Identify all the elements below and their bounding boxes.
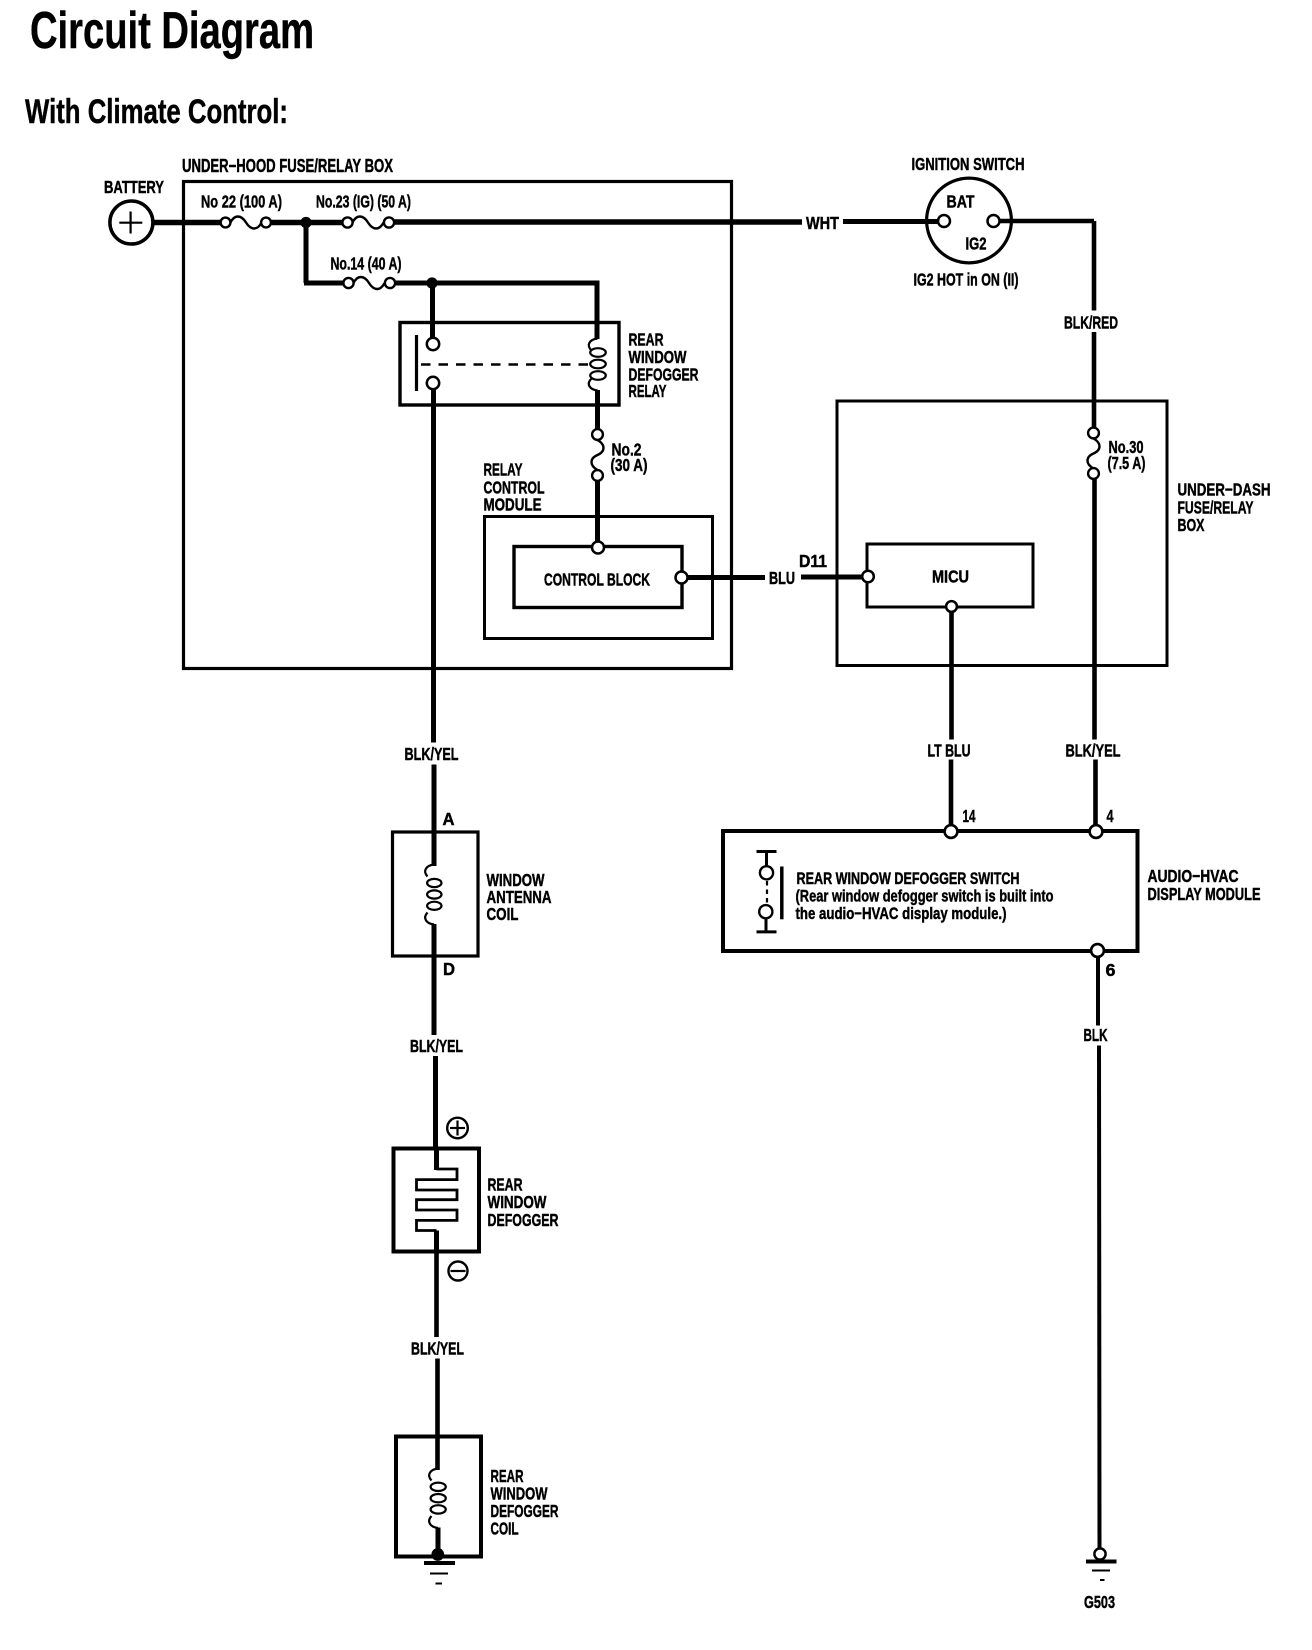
wire No.14 run down to relay coil xyxy=(595,283,600,339)
svg-text:BLK/YEL: BLK/YEL xyxy=(405,744,459,764)
svg-text:WINDOW: WINDOW xyxy=(488,1192,547,1212)
wire BLK/YEL label down to defogger coil xyxy=(435,1359,440,1471)
wire WHT label to ignition switch BAT terminal xyxy=(843,219,939,224)
svg-text:IG2: IG2 xyxy=(966,234,987,254)
wire fuse No.2 to control block xyxy=(595,481,600,543)
svg-text:IGNITION SWITCH: IGNITION SWITCH xyxy=(912,154,1025,174)
wire fuse No.14 to relay coil drop xyxy=(395,281,600,286)
wire fuse No.30 down to BLK/YEL label xyxy=(1092,479,1097,740)
rear window defogger coil L2 xyxy=(396,1437,559,1557)
svg-text:BATTERY: BATTERY xyxy=(104,177,164,197)
svg-text:UNDER−HOOD FUSE/RELAY BOX: UNDER−HOOD FUSE/RELAY BOX xyxy=(182,156,393,176)
switch note text xyxy=(796,869,1054,923)
pin 14 xyxy=(945,825,958,838)
wire control block to BLU label xyxy=(688,575,766,580)
svg-text:BLK/YEL: BLK/YEL xyxy=(410,1036,463,1056)
rear window defogger switch symbol xyxy=(757,852,782,932)
fuse No.22 (100 A) xyxy=(201,192,282,229)
fuse No.23 (IG) (50 A) xyxy=(316,192,411,229)
svg-text:WHT: WHT xyxy=(806,213,839,233)
svg-text:(30 A): (30 A) xyxy=(611,455,648,475)
svg-text:RELAY: RELAY xyxy=(484,460,523,480)
wire LT BLU label to pin 14 xyxy=(949,760,954,827)
svg-text:COIL: COIL xyxy=(487,904,519,924)
title xyxy=(25,2,314,131)
svg-text:MICU: MICU xyxy=(932,567,969,587)
plus terminal symbol xyxy=(447,1118,468,1139)
svg-text:BLK/YEL: BLK/YEL xyxy=(1066,741,1121,761)
svg-text:CONTROL BLOCK: CONTROL BLOCK xyxy=(544,570,650,590)
svg-text:AUDIO−HVAC: AUDIO−HVAC xyxy=(1148,866,1239,886)
svg-text:6: 6 xyxy=(1106,960,1116,980)
ground at defogger coil xyxy=(424,1548,455,1583)
wire BLK label down to ground G503 xyxy=(1097,1046,1102,1549)
svg-text:No.14 (40 A): No.14 (40 A) xyxy=(331,254,402,274)
window antenna coil L1 xyxy=(393,832,552,956)
svg-text:BLK/YEL: BLK/YEL xyxy=(411,1339,464,1359)
svg-text:4: 4 xyxy=(1107,806,1114,826)
relay control module box xyxy=(484,460,713,639)
minus terminal symbol xyxy=(449,1262,468,1281)
wire fuse No.23 to WHT label xyxy=(394,219,802,225)
audio-hvac display module box xyxy=(723,831,1261,951)
svg-text:BLU: BLU xyxy=(769,568,795,588)
wire junction down to relay contact xyxy=(430,283,435,339)
svg-text:A: A xyxy=(443,809,455,829)
svg-text:(Rear window defogger switch i: (Rear window defogger switch is built in… xyxy=(796,887,1054,906)
svg-text:REAR WINDOW DEFOGGER SWITCH: REAR WINDOW DEFOGGER SWITCH xyxy=(797,869,1020,888)
fuse No.30 (7.5 A) xyxy=(1088,428,1146,479)
svg-text:D11: D11 xyxy=(799,551,827,571)
MICU xyxy=(862,544,1033,612)
svg-text:BAT: BAT xyxy=(947,192,975,212)
ground G503 xyxy=(1084,1548,1117,1612)
pin 4 xyxy=(1090,825,1103,838)
under-hood fuse/relay box xyxy=(182,156,732,669)
wire battery to fuse No.22 xyxy=(153,220,222,226)
svg-text:IG2 HOT in ON (II): IG2 HOT in ON (II) xyxy=(914,270,1019,290)
wire BLK/YEL label to antenna coil terminal A xyxy=(432,765,437,867)
wire relay contact down to BLK/YEL label xyxy=(431,389,436,743)
wire BLK/RED label to fuse No.30 xyxy=(1092,332,1097,428)
svg-text:14: 14 xyxy=(963,806,976,826)
svg-text:With Climate Control:: With Climate Control: xyxy=(25,93,288,131)
svg-text:No 22 (100 A): No 22 (100 A) xyxy=(201,192,282,212)
wire branch down to No.14 xyxy=(304,223,309,284)
svg-text:BLK: BLK xyxy=(1084,1025,1108,1045)
wire corner down to BLK/RED label xyxy=(1092,221,1097,311)
control block U1 xyxy=(514,542,688,608)
svg-text:COIL: COIL xyxy=(491,1519,519,1539)
relay REAR WINDOW DEFOGGER RELAY xyxy=(400,323,699,406)
wire MICU down to LT BLU label xyxy=(949,612,954,740)
wire relay coil to fuse No.2 xyxy=(595,390,600,430)
junction node above relay contact xyxy=(426,277,437,288)
wire fuse No.22 to fuse No.23 xyxy=(271,220,343,226)
rear window defogger R1 xyxy=(394,1149,559,1252)
wire ignition IG2 terminal to corner xyxy=(1000,219,1095,224)
svg-text:UNDER−DASH: UNDER−DASH xyxy=(1178,480,1271,500)
fuse No.2 (30 A) xyxy=(592,429,648,481)
svg-text:BOX: BOX xyxy=(1178,515,1205,535)
svg-text:RELAY: RELAY xyxy=(629,381,667,401)
pin 6 xyxy=(1091,944,1104,957)
ignition switch xyxy=(912,154,1025,290)
svg-text:DISPLAY MODULE: DISPLAY MODULE xyxy=(1148,884,1261,904)
under-dash fuse/relay box xyxy=(837,401,1271,666)
svg-text:No.23 (IG) (50 A): No.23 (IG) (50 A) xyxy=(316,192,411,212)
svg-text:D: D xyxy=(443,959,455,979)
svg-text:G503: G503 xyxy=(1084,1592,1115,1612)
svg-text:(7.5 A): (7.5 A) xyxy=(1108,453,1146,473)
wire BLU label to MICU xyxy=(801,575,864,580)
wire BLK/YEL label down to defogger xyxy=(433,1056,438,1149)
wire pin 6 down to BLK label xyxy=(1096,957,1100,1026)
wire defogger down to BLK/YEL label xyxy=(434,1252,439,1338)
fuse No.14 (40 A) xyxy=(331,254,402,290)
battery xyxy=(104,177,164,244)
svg-text:DEFOGGER: DEFOGGER xyxy=(488,1210,559,1230)
svg-text:the audio−HVAC display module.: the audio−HVAC display module.) xyxy=(796,904,1007,923)
junction node at No.14 branch xyxy=(300,217,311,228)
svg-text:BLK/RED: BLK/RED xyxy=(1064,313,1118,333)
wire BLK/YEL label to pin 4 xyxy=(1093,760,1098,827)
wire coil to terminal D and down to BLK/YEL label xyxy=(432,924,437,1035)
svg-text:LT BLU: LT BLU xyxy=(928,741,971,761)
svg-text:Circuit Diagram: Circuit Diagram xyxy=(30,2,314,60)
svg-text:MODULE: MODULE xyxy=(484,495,542,515)
